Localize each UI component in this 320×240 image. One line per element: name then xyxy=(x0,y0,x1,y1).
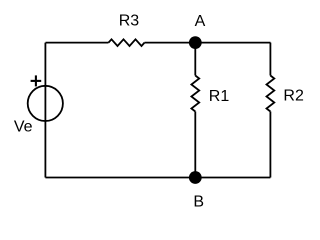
wire: R1 down to node B xyxy=(194,112,196,178)
wire: left branch vertical through source xyxy=(44,43,46,178)
plus polarity mark xyxy=(31,75,42,86)
resistor R2 xyxy=(267,76,275,112)
svg-text:R3: R3 xyxy=(119,13,140,30)
wire: node A down to R1 xyxy=(194,43,196,76)
resistor R1 xyxy=(191,76,199,112)
svg-text:A: A xyxy=(195,13,206,30)
wire: bottom xyxy=(45,177,270,179)
svg-text:B: B xyxy=(193,194,204,211)
svg-text:R1: R1 xyxy=(209,88,230,105)
svg-text:Ve: Ve xyxy=(14,118,33,135)
node A junction dot xyxy=(189,36,202,49)
wire: R3 to node A and on to top-right corner xyxy=(145,42,271,44)
voltage source Ve xyxy=(28,86,63,121)
wire top-left: top-left corner to R3 xyxy=(46,42,109,44)
wire: R2 bottom to bottom-right corner xyxy=(269,112,271,178)
node B junction dot xyxy=(189,171,202,184)
svg-text:R2: R2 xyxy=(283,88,304,105)
resistor R3 xyxy=(109,39,145,46)
wire: R2 top connection xyxy=(269,43,271,76)
